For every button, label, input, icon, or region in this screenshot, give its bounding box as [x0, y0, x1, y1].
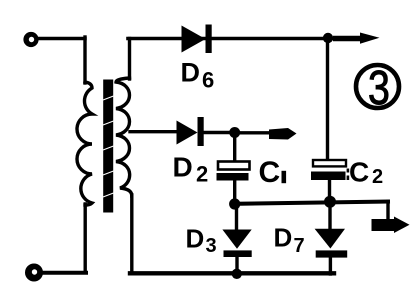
- svg-text:2: 2: [372, 166, 383, 188]
- svg-text:D: D: [181, 58, 201, 88]
- svg-text:C: C: [259, 156, 281, 189]
- svg-text:3: 3: [368, 61, 390, 115]
- svg-text:D: D: [274, 223, 293, 253]
- svg-text:D: D: [173, 152, 193, 183]
- svg-text:7: 7: [294, 235, 305, 257]
- svg-text:3: 3: [206, 235, 217, 257]
- svg-text:C: C: [349, 157, 369, 188]
- svg-text:D: D: [186, 224, 205, 254]
- svg-text:2: 2: [196, 162, 208, 187]
- svg-text:6: 6: [202, 68, 214, 93]
